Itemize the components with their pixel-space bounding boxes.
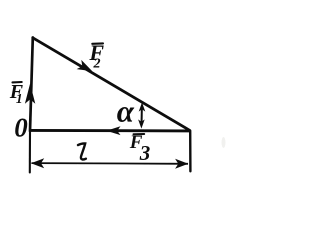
svg-text:α: α bbox=[117, 94, 135, 129]
label F2 overbar bbox=[92, 42, 103, 44]
wire right extension line below base bbox=[189, 131, 192, 171]
angle alpha arrowhead up bbox=[139, 102, 146, 111]
svg-text:2: 2 bbox=[93, 56, 101, 71]
scan smudge right edge bbox=[222, 137, 226, 148]
dimension line for l bbox=[32, 162, 189, 165]
wire base line bbox=[30, 129, 190, 132]
dimension arrowhead left bbox=[31, 158, 44, 168]
svg-text:0: 0 bbox=[14, 113, 28, 143]
label F3 overbar bbox=[134, 133, 145, 135]
wire hypotenuse bbox=[33, 38, 190, 131]
dimension arrowhead right bbox=[175, 159, 188, 169]
vector F2 arrowhead (down-right along hypotenuse) bbox=[77, 60, 93, 71]
vector F1 arrowhead (up along left side) bbox=[25, 84, 35, 104]
angle alpha arrowhead down bbox=[138, 119, 145, 128]
angle alpha double arrow shaft bbox=[141, 106, 143, 125]
label l (length) bbox=[78, 143, 86, 159]
svg-text:3: 3 bbox=[139, 141, 151, 165]
label F1 overbar bbox=[13, 81, 22, 84]
svg-text:1: 1 bbox=[16, 91, 23, 106]
wire left extension line below base bbox=[29, 131, 31, 173]
wire left side of triangle (F1 line of action) bbox=[30, 38, 33, 132]
vector F3 arrowhead (left along base) bbox=[106, 126, 120, 135]
